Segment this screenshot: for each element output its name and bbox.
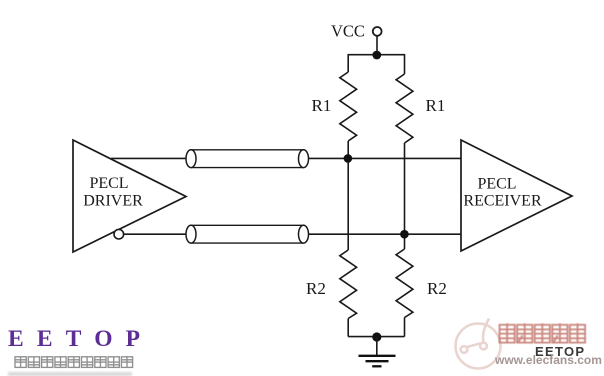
node dot bottom line / right rail [400, 230, 409, 239]
VCC terminal circle [373, 27, 382, 36]
driver inverting output bubble [114, 229, 124, 239]
transmission line TL2 right cap [299, 225, 309, 243]
wire left rail R1 to R2 [347, 141, 349, 250]
transmission line TL2 body [191, 225, 304, 243]
resistor R2 (right) zigzag [396, 249, 413, 318]
wire bottom signal line [124, 233, 462, 235]
svg-text:R2: R2 [427, 279, 447, 298]
transmission line TL1 right cap [299, 150, 309, 168]
label PECL DRIVER [83, 175, 143, 210]
wire right R2 bottom stub [404, 318, 406, 337]
op-amp U2 PECL receiver triangle [461, 140, 572, 251]
logo EETOP wordmark [8, 326, 153, 353]
wire top signal line [111, 157, 461, 159]
svg-text:PECL: PECL [89, 175, 128, 192]
wire left R2 bottom stub [347, 319, 349, 337]
node dot top line / left rail [344, 154, 353, 163]
svg-text:R1: R1 [426, 96, 446, 115]
watermark ring logo (bottom right) [456, 319, 501, 369]
transmission line TL1 body [191, 150, 304, 168]
resistor R1 (left) zigzag [340, 72, 357, 141]
watermark EETOP gray text [535, 344, 585, 359]
logo chinese tagline pseudo-glyphs [15, 357, 133, 368]
svg-text:DRIVER: DRIVER [83, 193, 143, 210]
node ground junction dot [372, 332, 381, 341]
ground symbol [359, 356, 396, 367]
node VCC junction dot [372, 51, 381, 60]
transmission line TL1 left cap [186, 150, 196, 168]
svg-text:R1: R1 [312, 96, 332, 115]
svg-text:R2: R2 [306, 279, 326, 298]
op-amp U1 PECL driver triangle [73, 140, 186, 252]
svg-text:PECL: PECL [477, 176, 516, 193]
wire right rail R1 to R2 [404, 143, 406, 249]
watermark url text [495, 353, 602, 367]
wire right branch stub [404, 54, 406, 74]
logo cut-off bottom text row [8, 372, 132, 376]
watermark chinese brand pseudo-glyphs [500, 323, 586, 342]
wire top tee horizontal [348, 54, 404, 56]
wire VCC stub [376, 36, 378, 53]
wire ground stub [376, 337, 378, 355]
wire bottom tee horizontal [348, 336, 404, 338]
svg-text:VCC: VCC [331, 22, 365, 41]
wire left branch stub [347, 54, 349, 72]
svg-text:RECEIVER: RECEIVER [463, 193, 542, 210]
resistor R1 (right) zigzag [396, 74, 413, 143]
transmission line TL2 left cap [186, 225, 196, 243]
resistor R2 (left) zigzag [340, 250, 357, 319]
label PECL RECEIVER [463, 176, 542, 210]
